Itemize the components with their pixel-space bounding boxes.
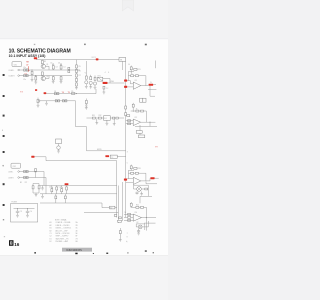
wire inner (14, 208, 35, 210)
capacitor C115 (116, 117, 118, 119)
svg-text:6F: 6F (76, 236, 78, 238)
enclosure box (11, 204, 38, 222)
capacitor C104 (60, 64, 62, 70)
footer mark f3 (93, 253, 94, 254)
svg-text:C3: C3 (56, 67, 58, 69)
transistor Q102 (41, 76, 45, 80)
node tp11 (red) (65, 183, 69, 185)
junction n5 (149, 122, 150, 123)
ground G20 (26, 215, 29, 217)
svg-text:LINE: LINE (110, 81, 114, 83)
wire out branch (148, 86, 156, 97)
resistor R125 (66, 186, 68, 194)
svg-text:IC4: IC4 (134, 212, 137, 214)
capacitor C301 (130, 165, 132, 171)
ground G5 (75, 88, 78, 90)
svg-text:2.2: 2.2 (106, 88, 108, 90)
rail line2 (40, 193, 117, 195)
resistor R103 (41, 60, 43, 64)
capacitor C124 (61, 186, 63, 194)
red leader line (28, 66, 30, 71)
svg-text:R21: R21 (138, 69, 141, 71)
svg-text:U2: U2 (136, 222, 138, 224)
ground G11 (85, 108, 88, 110)
fold mark m3 (3, 115, 5, 117)
svg-text:DJM-900NXS: DJM-900NXS (67, 249, 83, 252)
node tp6 (red) on rail (96, 58, 99, 60)
capacitor C111 (55, 100, 60, 102)
capacitor C108 (54, 93, 59, 95)
wire ladder joins (33, 184, 39, 195)
wire output2 (141, 121, 156, 123)
net box 9A (140, 98, 146, 102)
jack J2 (18, 75, 20, 77)
fold mark top right (145, 44, 147, 46)
resistor R130 (114, 215, 117, 217)
viewer background (0, 0, 168, 300)
capacitor C132 (26, 209, 29, 216)
wire after out (153, 84, 156, 86)
capacitor C110 (103, 86, 105, 90)
trimmer VR3 (93, 75, 96, 87)
node in2 (red) (124, 86, 127, 88)
capacitor C105 (52, 76, 54, 80)
capacitor C114 (112, 117, 114, 119)
svg-text:CN2: CN2 (13, 166, 16, 168)
wire in5 (124, 214, 133, 220)
resistor ladder RA3 (76, 73, 78, 78)
node tp7 (red) (103, 82, 108, 84)
junction n8 (27, 208, 28, 209)
svg-text:4: 4 (105, 72, 106, 74)
junction n7 (17, 208, 18, 209)
resistor R203 (135, 75, 138, 77)
svg-text:B1: B1 (50, 228, 52, 230)
wire in3 (126, 121, 134, 124)
resistor R408 (119, 231, 121, 240)
svg-text:C9: C9 (20, 211, 22, 213)
transistor Q103 (56, 139, 62, 151)
resistor R405 (128, 220, 131, 222)
resistor R202 (131, 75, 134, 77)
fold mark m7 (3, 204, 5, 206)
wire stack feed (85, 61, 87, 74)
svg-text:10.1 INPUT ASSY (1/8): 10.1 INPUT ASSY (1/8) (9, 54, 46, 58)
node in1 (red) (124, 80, 127, 82)
capacitor C102 (24, 75, 29, 77)
resistor R102 (35, 76, 37, 81)
wire L input row (19, 69, 80, 71)
page icon glyph inner (11, 242, 12, 244)
wire feedback4 (131, 207, 147, 217)
wire drop L (43, 172, 45, 186)
capacitor C112 (62, 100, 67, 102)
node out1 (red) (149, 84, 154, 86)
wire select (108, 82, 125, 84)
capacitor C107 (68, 67, 70, 72)
resistor R205 (141, 110, 144, 112)
ground G4 (60, 80, 63, 83)
svg-text:D2: D2 (50, 241, 52, 243)
svg-text:16: 16 (14, 242, 20, 247)
wire feedback (128, 72, 146, 86)
resistor R309 (125, 106, 127, 109)
resistor R301 (92, 117, 95, 119)
fold mark m4 (3, 135, 5, 137)
capacitor C125 (55, 194, 57, 203)
svg-text:8B: 8B (120, 60, 122, 62)
svg-text:47u: 47u (23, 67, 26, 69)
jack J5 (38, 100, 40, 102)
vca U302 (138, 225, 142, 229)
node tp10 (red) (31, 156, 34, 158)
capacitor C126 (64, 194, 66, 203)
svg-text:Q2: Q2 (46, 76, 48, 78)
bookmark ribbon icon (122, 0, 133, 11)
svg-text:R32: R32 (99, 115, 102, 117)
resistor R104 (41, 72, 43, 75)
wire upper feed (40, 100, 76, 102)
model plate (62, 248, 92, 252)
svg-text:8: 8 (127, 237, 128, 239)
svg-text:R5: R5 (79, 66, 81, 68)
jack J3 (18, 171, 20, 173)
resistor R311 (145, 188, 148, 190)
svg-text:5E: 5E (76, 233, 78, 235)
resistor R310 (125, 113, 127, 116)
fold mark top center (84, 44, 86, 46)
svg-text:R41: R41 (136, 205, 139, 207)
rail line1 (40, 185, 117, 187)
svg-text:C3: C3 (49, 186, 51, 188)
wire mute bus (87, 150, 126, 152)
svg-text:CL: CL (150, 82, 152, 84)
svg-text:D1: D1 (50, 238, 52, 240)
node tp1 (red) (34, 57, 37, 59)
chain drop (119, 228, 121, 231)
resistor R305 (135, 172, 138, 174)
footer tiny mark (4, 236, 5, 237)
connector CN1 (12, 62, 22, 67)
ground G21 (119, 240, 122, 242)
resistor R403 (128, 214, 131, 216)
svg-text:10: 10 (128, 64, 130, 66)
footer mark f5 (127, 252, 128, 253)
op-amp IC301a (133, 177, 141, 184)
fold mark bottom right (145, 250, 147, 252)
wire q1 out (46, 66, 50, 70)
wire inverting input (127, 81, 133, 84)
svg-text:V1: V1 (85, 73, 87, 75)
resistor R131 (119, 217, 122, 219)
svg-text:CN1: CN1 (14, 64, 17, 66)
resistor R101 (31, 70, 33, 76)
wire drop R (45, 178, 47, 194)
svg-text:R31: R31 (92, 115, 95, 117)
vca U301 (137, 187, 142, 192)
capacitor C123 (51, 186, 53, 194)
capacitor C202 (132, 103, 134, 112)
page icon glyph (10, 242, 12, 245)
resistor R204 (136, 110, 139, 112)
white page (0, 39, 168, 257)
footer mark f4 (106, 253, 108, 254)
wire right trunk (116, 161, 118, 218)
vertical bus lower (125, 126, 127, 217)
ground G6 (85, 86, 88, 88)
fold mark m6 (3, 183, 5, 185)
svg-text:FL1: FL1 (104, 118, 107, 120)
footer mark f1 (34, 252, 36, 253)
resistor ladder RA4 (76, 77, 78, 82)
capacitor C121 (24, 170, 29, 172)
ground G24 (37, 105, 40, 107)
wire line L (19, 171, 44, 173)
resistor R401 (136, 206, 139, 208)
svg-text:VCC1: VCC1 (92, 57, 96, 59)
junction n1 (31, 69, 32, 70)
ground G10 (45, 101, 48, 105)
svg-text:R7: R7 (79, 75, 81, 77)
svg-text:C4: C4 (59, 186, 61, 188)
svg-text:1k: 1k (131, 73, 133, 75)
ground G2 (34, 81, 37, 84)
wire after out3 (155, 177, 159, 179)
wire link down (86, 127, 88, 151)
footer mark f2 (75, 253, 77, 255)
svg-text:C4: C4 (63, 67, 65, 69)
svg-text:47u: 47u (23, 79, 26, 81)
capacitor C103 (52, 64, 54, 70)
resistor R402 (141, 206, 144, 208)
wire bus drop (121, 61, 123, 70)
ground G12 (95, 119, 98, 125)
resistor R208 (128, 123, 131, 125)
capacitor C303 (136, 192, 139, 195)
ground G7 (89, 87, 92, 89)
ground G8 (94, 87, 97, 89)
svg-text:Q1: Q1 (46, 64, 48, 66)
node tp8 (red) (105, 155, 109, 157)
capacitor C122 (24, 176, 29, 178)
rail line3 (40, 203, 117, 208)
footer mark f6 (153, 252, 154, 253)
wire output (141, 85, 149, 87)
wire fb top (128, 72, 134, 73)
capacitor C113 (85, 99, 87, 108)
relay RY1 (98, 77, 103, 81)
ground G14 (113, 119, 116, 126)
op-amp IC201b (133, 119, 141, 126)
net box 9B (138, 133, 144, 137)
resistor R121 (35, 169, 37, 178)
node in4 (red) (124, 179, 127, 181)
capacitor C401 (130, 202, 132, 207)
resistor R201 (134, 68, 137, 70)
wire R input row (19, 75, 72, 77)
svg-text:R2: R2 (25, 182, 27, 184)
svg-text:C0: C0 (30, 211, 32, 213)
svg-text:R33: R33 (138, 168, 141, 170)
resistor R122 (32, 184, 34, 194)
transistor Q101 (41, 64, 45, 68)
svg-text:6: 6 (108, 72, 109, 74)
ground G19 (16, 215, 19, 217)
fold mark m5 (3, 151, 5, 153)
ground G17 (41, 186, 44, 191)
ground G13 (106, 120, 109, 125)
svg-text:2B: 2B (76, 225, 78, 227)
margin cross (2, 165, 4, 167)
ground G23 (137, 233, 140, 235)
mute line wire (44, 93, 92, 95)
power rail +B (36, 59, 119, 61)
wire top corner (140, 196, 152, 203)
resistor R132 (118, 220, 122, 222)
net box 7C (110, 155, 117, 159)
wire line R (19, 177, 46, 179)
wire q2 out (46, 76, 50, 79)
wire adc row (87, 117, 125, 119)
svg-text:LINE IN — PHONO: LINE IN — PHONO (56, 225, 71, 227)
svg-text:C2: C2 (50, 236, 52, 238)
resistor R123 (38, 184, 40, 194)
trunk line3 (121, 182, 123, 221)
op-amp IC401a (133, 214, 141, 221)
wire output4 (142, 217, 157, 219)
svg-text:MUTE: MUTE (97, 149, 102, 151)
trimmer VR2 (89, 75, 92, 87)
svg-text:R6: R6 (79, 70, 81, 72)
wire output4b (144, 218, 156, 231)
svg-text:5: 5 (127, 162, 128, 164)
svg-text:C6: C6 (58, 62, 60, 64)
capacitor C203 (136, 125, 142, 133)
wire vca frame (134, 185, 149, 196)
wire feedback2 (131, 111, 147, 122)
resistor R124 (56, 186, 58, 194)
wire output2b (135, 122, 157, 126)
ground G15 (57, 151, 60, 153)
resistor ladder RA1 (76, 60, 78, 68)
trimmer VR1 (85, 74, 88, 86)
svg-text:IC1: IC1 (135, 80, 138, 82)
fold mark m1 (3, 74, 5, 76)
svg-text:C1: C1 (50, 233, 52, 235)
svg-text:USB IN — CONTROL: USB IN — CONTROL (56, 228, 72, 230)
wire line top feed (35, 157, 117, 161)
wire out3 lower (146, 182, 157, 184)
svg-text:LINE R: LINE R (8, 177, 14, 179)
net label box 8B (119, 57, 126, 61)
svg-text:MUTE — SYSCON: MUTE — SYSCON (56, 233, 71, 235)
fold mark top left (34, 44, 36, 45)
capacitor C201 (130, 66, 132, 72)
margin small mark (3, 219, 4, 220)
resistor R304 (131, 172, 134, 174)
ground G16 (35, 195, 38, 197)
svg-text:R9: R9 (71, 91, 73, 93)
svg-text:5k: 5k (124, 212, 126, 214)
svg-text:C5: C5 (50, 62, 52, 64)
resistor R140 (37, 98, 39, 106)
svg-text:B1: B1 (20, 182, 22, 184)
svg-text:LINE L: LINE L (8, 171, 13, 173)
wire net link (117, 156, 126, 158)
resistor ladder RA5 (76, 82, 78, 88)
svg-text:B2: B2 (50, 230, 52, 232)
op-amp IC201a (133, 82, 141, 89)
svg-text:7: 7 (127, 233, 128, 235)
ground G3 (52, 80, 55, 83)
svg-text:R3: R3 (44, 61, 46, 63)
resistor R303 (134, 167, 137, 169)
svg-text:IC2: IC2 (135, 117, 138, 119)
svg-text:3: 3 (127, 151, 128, 153)
wire bottom return (92, 89, 96, 94)
wire output3 (141, 178, 150, 181)
ground G18 (41, 194, 44, 199)
node tp3 (red) (44, 92, 47, 94)
wire stub right (155, 61, 157, 69)
capacitor C106 (60, 76, 62, 80)
junction n2 (35, 75, 36, 76)
fold mark m2 (3, 95, 5, 97)
node tp3b (red) (35, 89, 37, 91)
capacitor C101 (24, 69, 29, 71)
wire vca2 frame (136, 221, 148, 230)
wire noninverting input (127, 86, 133, 88)
jack J1 (18, 69, 20, 71)
resistor R206 (127, 115, 130, 117)
wire long drop (76, 101, 87, 127)
junction n4 (76, 93, 77, 94)
resistor R404 (128, 217, 131, 219)
jack J4 (18, 177, 20, 179)
svg-text:VREF — SUPPLY: VREF — SUPPLY (56, 236, 70, 238)
rail line4 (84, 212, 118, 214)
wire in4 (126, 179, 134, 183)
junction n6 (35, 171, 36, 172)
page icon (9, 240, 14, 246)
connector CN2 (11, 163, 21, 168)
junction n9 (146, 217, 147, 218)
node out3 (red) (150, 177, 154, 179)
ground G1 (31, 76, 34, 82)
resistor R207 (128, 120, 131, 122)
net box 6D (110, 206, 115, 209)
capacitor C131 (16, 209, 19, 216)
vertical bus line (125, 61, 127, 126)
filter FL1 (104, 116, 111, 121)
resistor R302 (98, 117, 101, 119)
wire feedback3 (128, 170, 146, 181)
svg-text:C8: C8 (54, 91, 56, 93)
svg-text:B: B (2, 130, 3, 132)
trunk line2 (117, 186, 119, 224)
resistor R109 (72, 93, 75, 95)
capacitor C402 (137, 229, 140, 233)
wire relay top (103, 79, 110, 83)
junction n3 (68, 69, 69, 70)
svg-text:2k: 2k (136, 108, 138, 110)
svg-text:FILTER: FILTER (12, 202, 18, 204)
resistor ladder RA2 (76, 68, 78, 73)
ground G22 (140, 192, 143, 196)
ground G9 (103, 91, 106, 94)
